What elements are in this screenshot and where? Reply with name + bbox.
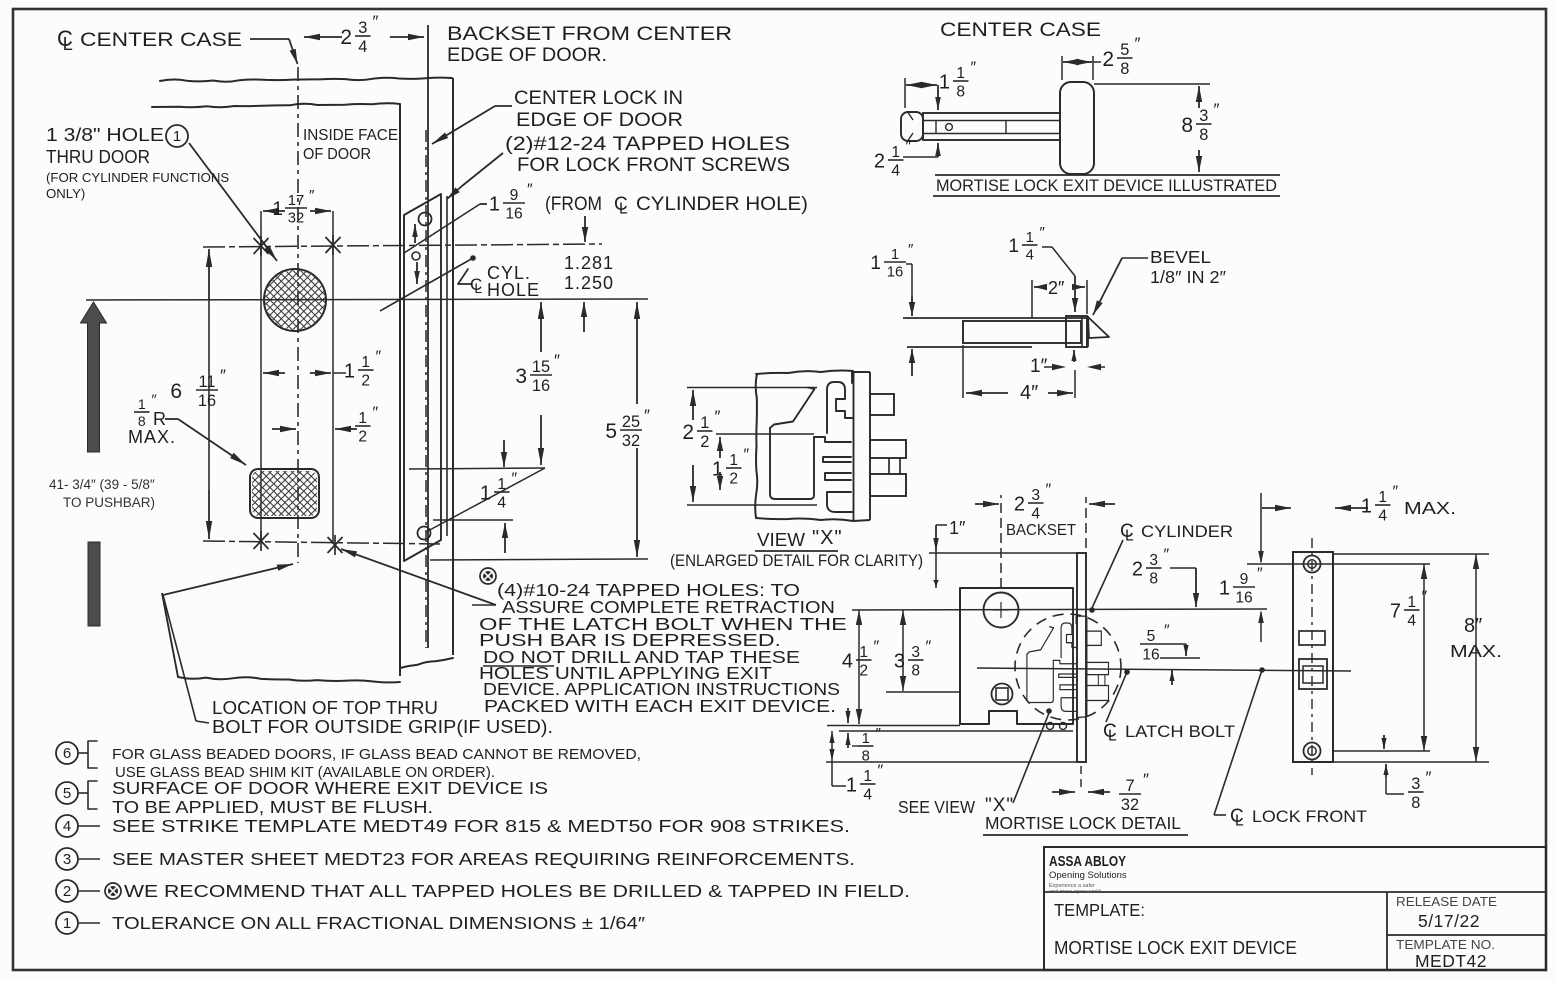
svg-text:″: ″ [971, 60, 977, 77]
dimension 7 1/4 [1421, 564, 1427, 579]
dimension 7/32 plate thickness [1080, 766, 1082, 790]
cylinder hole circle crosshatched [264, 269, 326, 331]
dimension 3 15/16 vertical [540, 302, 542, 352]
svg-text:2: 2 [729, 470, 738, 487]
svg-text:3: 3 [515, 365, 527, 388]
note 2 screw symbol [105, 883, 121, 899]
center case head [1060, 82, 1094, 174]
svg-text:MAX.: MAX. [128, 427, 176, 447]
svg-text:4: 4 [863, 786, 872, 803]
asterisk bottom left [260, 531, 262, 551]
door vertical centerline (dashed) [297, 67, 299, 563]
svg-text:HOLE: HOLE [487, 280, 540, 300]
bevel detail bottom face line [907, 346, 1032, 348]
svg-text:1: 1 [859, 644, 868, 661]
svg-text:1.250: 1.250 [564, 273, 614, 293]
small cylinder mark circle on plate [412, 252, 420, 260]
lock body feet circles [1047, 723, 1054, 730]
top screw concentric circles [1304, 556, 1321, 573]
svg-text:THRU DOOR: THRU DOOR [46, 146, 150, 167]
dimension 3/8 bottom right [1383, 735, 1385, 749]
svg-text:L: L [1235, 812, 1244, 829]
svg-text:″: ″ [1257, 566, 1263, 583]
door top break - lower wavy line [152, 103, 400, 107]
svg-text:2: 2 [1132, 559, 1143, 581]
dashed view X circle [1015, 614, 1121, 720]
svg-text:1: 1 [358, 410, 367, 427]
svg-text:″: ″ [512, 471, 518, 488]
svg-text:″: ″ [1135, 34, 1141, 53]
svg-text:2: 2 [340, 26, 352, 49]
svg-text:1: 1 [1378, 489, 1387, 506]
svg-text:8: 8 [1181, 114, 1193, 137]
bottom reference line y=560 [430, 559, 648, 560]
svg-text:CYLINDER HOLE): CYLINDER HOLE) [636, 194, 808, 215]
view X dimension 1 1/2 [716, 433, 814, 435]
svg-text:25: 25 [622, 413, 640, 431]
lock front plate inner edge line [446, 196, 448, 536]
svg-text:"X": "X" [812, 527, 843, 549]
leader from asterisk to 10-24 tapped holes note [341, 549, 496, 605]
dimension 1/2 [272, 428, 296, 430]
svg-text:1: 1 [1026, 230, 1034, 246]
svg-text:″: ″ [876, 725, 882, 742]
svg-text:4: 4 [358, 38, 367, 56]
svg-text:8: 8 [1199, 126, 1208, 144]
asterisk mark left on top line [260, 236, 262, 256]
svg-text:″: ″ [744, 447, 750, 464]
svg-text:8: 8 [862, 749, 870, 765]
svg-text:1: 1 [480, 483, 491, 505]
label CL LOCK FRONT with leader [1214, 670, 1262, 815]
svg-text:MORTISE LOCK EXIT DEVICE: MORTISE LOCK EXIT DEVICE [1054, 937, 1297, 958]
svg-text:″: ″ [1164, 623, 1170, 640]
svg-text:4: 4 [891, 162, 900, 179]
bottom screw concentric circles [1304, 743, 1321, 760]
svg-text:3: 3 [358, 19, 367, 37]
svg-text:15: 15 [532, 358, 550, 376]
pushbar thru-bolt hole crosshatched rounded rect [250, 469, 319, 518]
reference line y762 plate bottom extension [826, 761, 1077, 763]
svg-text:R: R [153, 409, 166, 429]
upper rect hole on plate [1299, 631, 1325, 645]
asterisk bottom right [334, 535, 336, 555]
svg-text:11: 11 [199, 373, 216, 391]
title block vertical divider [1386, 892, 1388, 970]
dimension arrows 1 9/16 vertical pair [584, 216, 586, 242]
plate top extension right [1333, 553, 1489, 555]
cylinder centerline horizontal reference [86, 299, 648, 300]
svg-text:1: 1 [272, 199, 283, 220]
svg-text:INSIDE FACE: INSIDE FACE [303, 127, 398, 144]
comb teeth [814, 437, 852, 512]
latch bolt rect hole on plate [1299, 659, 1327, 689]
svg-text:1: 1 [863, 768, 872, 785]
door top break - upper wavy line [160, 78, 452, 82]
label CL LATCH BOLT with leader [1106, 672, 1127, 722]
large textured reference arrow lower shaft [88, 542, 100, 626]
spindle hub circle with square [992, 684, 1013, 705]
svg-text:″: ″ [152, 392, 157, 408]
svg-text:1: 1 [712, 459, 723, 481]
svg-text:VIEW: VIEW [757, 530, 805, 550]
svg-text:8: 8 [1149, 570, 1158, 587]
dimension 2 inch [1031, 280, 1033, 318]
label CL CYL HOLE with leader dot [470, 255, 476, 261]
bottom screw centerline extension [1333, 750, 1430, 752]
svg-text:17: 17 [288, 193, 304, 209]
dimension 1 1/2 hole spacing [263, 372, 285, 374]
svg-text:SURFACE OF DOOR WHERE EXIT DEV: SURFACE OF DOOR WHERE EXIT DEVICE IS [112, 778, 548, 798]
svg-text:1: 1 [497, 476, 506, 493]
svg-text:7: 7 [1125, 777, 1134, 795]
svg-text:2: 2 [361, 372, 370, 389]
cylinder hole in body [984, 593, 1019, 628]
svg-text:L: L [474, 280, 482, 296]
svg-text:4: 4 [1378, 507, 1387, 524]
backset dimension 2 3/4 [1000, 495, 1002, 588]
svg-text:″: ″ [1422, 589, 1428, 606]
prong connector lines [888, 458, 890, 474]
svg-text:and more open world: and more open world [1049, 889, 1101, 895]
dimension 8 MAX [1473, 554, 1479, 569]
ground line under device [935, 174, 1280, 176]
svg-text:1: 1 [729, 452, 738, 469]
dimension 1 1/4 bottom left [829, 731, 834, 743]
note 5 circle and bracket [56, 782, 78, 804]
reference line y725 [827, 725, 960, 727]
svg-text:32: 32 [288, 211, 304, 227]
svg-text:ONLY): ONLY) [46, 186, 85, 201]
svg-text:MAX.: MAX. [1450, 641, 1502, 661]
svg-text:5: 5 [605, 420, 617, 443]
svg-text:16: 16 [887, 265, 903, 281]
backset reference line (edge of door lock centerline), vertical [427, 25, 429, 648]
svg-text:Opening Solutions: Opening Solutions [1049, 870, 1127, 881]
svg-text:″: ″ [1164, 547, 1170, 564]
dimension 6 11/16 vertical [208, 249, 210, 300]
title block logo divider [1044, 891, 1546, 893]
view X door block wavy outline [756, 370, 853, 374]
push bar end cap [901, 112, 923, 141]
svg-text:4: 4 [1031, 505, 1040, 522]
svg-text:ASSA ABLOY: ASSA ABLOY [1049, 853, 1126, 870]
svg-text:CENTER CASE: CENTER CASE [940, 19, 1101, 41]
svg-text:″: ″ [908, 241, 914, 258]
svg-text:4: 4 [1026, 248, 1034, 264]
svg-text:EDGE OF DOOR: EDGE OF DOOR [516, 110, 683, 131]
svg-text:4: 4 [842, 651, 853, 673]
note 1 circle [56, 912, 78, 934]
svg-text:1: 1 [1008, 236, 1019, 257]
bottom reference line with asterisks [203, 541, 440, 544]
svg-text:8: 8 [911, 662, 920, 679]
svg-text:16: 16 [1142, 646, 1159, 663]
svg-text:1: 1 [700, 414, 709, 432]
svg-text:1: 1 [939, 72, 950, 94]
svg-text:1: 1 [361, 354, 370, 371]
lock front plate elevation rect [1293, 552, 1333, 762]
bevel lock body rect [963, 321, 1081, 343]
note 4 circle [56, 815, 78, 837]
door edge bottom wavy between edge lines [400, 658, 453, 668]
svg-text:2: 2 [358, 428, 367, 445]
bevel lock front plate [1066, 316, 1087, 347]
svg-text:1/8″ IN 2″: 1/8″ IN 2″ [1150, 267, 1226, 287]
svg-text:41- 3/4″ (39 - 5/8″: 41- 3/4″ (39 - 5/8″ [49, 477, 155, 492]
svg-text:L: L [63, 34, 73, 54]
svg-text:7: 7 [1390, 601, 1401, 623]
title block right divider [1387, 934, 1546, 936]
svg-text:″: ″ [554, 351, 560, 370]
svg-text:LOCATION OF TOP THRU: LOCATION OF TOP THRU [212, 698, 438, 718]
svg-text:PACKED WITH EACH EXIT DEVICE.: PACKED WITH EACH EXIT DEVICE. [484, 696, 836, 716]
plate vertical centerline dashed [1311, 538, 1313, 775]
svg-text:1.281: 1.281 [564, 253, 614, 273]
svg-text:TEMPLATE NO.: TEMPLATE NO. [1396, 937, 1495, 952]
svg-text:L: L [1108, 727, 1117, 744]
note 2 circle [56, 880, 78, 902]
note 3 circle [56, 848, 78, 870]
svg-text:TOLERANCE ON ALL FRACTIONAL DI: TOLERANCE ON ALL FRACTIONAL DIMENSIONS ±… [112, 913, 645, 933]
comb lower pocket [770, 428, 814, 499]
svg-text:2″: 2″ [1048, 278, 1065, 298]
svg-text:1: 1 [173, 128, 181, 145]
push bar body [923, 113, 1060, 140]
svg-text:LOCK FRONT: LOCK FRONT [1252, 807, 1367, 826]
svg-text:1: 1 [63, 915, 71, 932]
dimension 8 3/8 [1094, 83, 1210, 85]
lock front plate on door edge - parallelogram [404, 194, 441, 561]
title block outer rect [1044, 847, 1546, 970]
reference line y=468 [409, 468, 545, 469]
door bottom break wavy line [178, 677, 400, 682]
leader to lock front plate top screw [462, 153, 503, 186]
latch bolt prong top [870, 394, 894, 415]
svg-text:8: 8 [1120, 60, 1129, 78]
svg-text:OF DOOR: OF DOOR [303, 146, 371, 163]
svg-text:″: ″ [220, 366, 226, 385]
svg-text:″: ″ [878, 763, 884, 780]
svg-text:2: 2 [63, 883, 71, 900]
hole center vertical line left [260, 211, 262, 541]
svg-text:″: ″ [1040, 224, 1046, 241]
plate bottom extension right [1333, 761, 1489, 763]
svg-text:EDGE OF DOOR.: EDGE OF DOOR. [447, 44, 607, 66]
svg-text:″: ″ [1393, 484, 1399, 501]
svg-text:″: ″ [644, 406, 650, 425]
note 6 circle and bracket [56, 742, 78, 764]
svg-text:2: 2 [682, 421, 694, 444]
svg-text:″: ″ [1046, 482, 1052, 499]
screw centerline y564 [1247, 563, 1430, 565]
svg-text:5: 5 [63, 785, 71, 802]
svg-text:4: 4 [497, 494, 506, 511]
svg-text:9: 9 [1240, 571, 1249, 588]
svg-text:″: ″ [1214, 100, 1220, 119]
leader polyline for LOCATION OF TOP THRU BOLT [163, 564, 293, 595]
dimension 2 5/8 [1061, 56, 1063, 80]
lock edge centerline dashed [425, 130, 427, 648]
leader from CENTER CASE label to door centerline [250, 38, 289, 40]
svg-text:″: ″ [376, 349, 382, 366]
svg-text:1: 1 [1219, 578, 1230, 600]
svg-text:2: 2 [859, 662, 868, 679]
hole center vertical line right [332, 211, 334, 544]
svg-text:16: 16 [1235, 589, 1252, 606]
dimension 4 1/2 left [856, 610, 862, 625]
svg-text:(FROM: (FROM [545, 194, 602, 215]
svg-text:3: 3 [1031, 487, 1040, 504]
asterisk mark right on top line [332, 235, 334, 255]
svg-text:3: 3 [1411, 775, 1420, 793]
lock front plate edge-on [853, 372, 855, 521]
svg-text:″: ″ [1426, 768, 1432, 787]
svg-text:″: ″ [373, 12, 379, 31]
dimension 1 1/4 small [503, 440, 505, 467]
svg-text:CENTER CASE: CENTER CASE [80, 30, 242, 51]
svg-text:1: 1 [489, 194, 500, 216]
svg-text:16: 16 [505, 205, 522, 222]
svg-text:8″: 8″ [1464, 615, 1482, 637]
dimension 1 1/8 [904, 78, 906, 108]
door bottom left slant edge [162, 593, 178, 677]
svg-text:(ENLARGED DETAIL FOR CLARITY): (ENLARGED DETAIL FOR CLARITY) [670, 552, 923, 570]
plate internal dimension arrows [414, 224, 416, 243]
svg-text:32: 32 [1121, 796, 1139, 814]
svg-text:4: 4 [63, 818, 71, 835]
push bar screw [946, 124, 953, 131]
bevel detail top face line [903, 317, 1088, 319]
svg-text:″: ″ [309, 187, 315, 204]
svg-text:1: 1 [344, 361, 355, 383]
svg-text:3: 3 [911, 644, 920, 661]
svg-text:″: ″ [373, 405, 379, 422]
lock front plate tall [1077, 553, 1086, 762]
svg-text:LATCH BOLT: LATCH BOLT [1125, 722, 1235, 741]
svg-text:FOR LOCK FRONT SCREWS: FOR LOCK FRONT SCREWS [517, 155, 790, 176]
svg-text:TEMPLATE:: TEMPLATE: [1054, 900, 1145, 920]
svg-text:MORTISE LOCK EXIT DEVICE ILLUS: MORTISE LOCK EXIT DEVICE ILLUSTRATED [936, 177, 1277, 195]
dimension 2 3/4 backset at top [304, 36, 342, 38]
svg-text:″: ″ [715, 407, 721, 426]
svg-text:9: 9 [510, 187, 519, 204]
svg-text:SEE STRIKE TEMPLATE MEDT49 F: SEE STRIKE TEMPLATE MEDT49 FOR 815 & MED… [112, 816, 850, 836]
svg-text:3: 3 [1199, 107, 1208, 125]
svg-text:″: ″ [906, 139, 912, 156]
top plate screw circle [419, 213, 432, 226]
svg-text:(2)#12-24 TAPPED HOLES: (2)#12-24 TAPPED HOLES [505, 134, 790, 155]
svg-text:1″: 1″ [949, 518, 966, 538]
svg-text:1: 1 [956, 65, 965, 82]
svg-text:CYLINDER: CYLINDER [1141, 523, 1233, 541]
svg-text:BOLT FOR OUTSIDE GRIP(IF USED): BOLT FOR OUTSIDE GRIP(IF USED). [212, 717, 553, 737]
bevel triangle [1088, 317, 1109, 338]
dimension 17/32 hole offset [263, 210, 285, 212]
svg-text:6: 6 [170, 380, 182, 403]
svg-text:16: 16 [198, 392, 216, 410]
dimension 4 inch [962, 345, 964, 398]
svg-text:″: ″ [926, 639, 932, 656]
cylinder centerline horizontal [852, 609, 1267, 610]
dimension 5 25/32 vertical [636, 302, 638, 404]
svg-text:SEE VIEW: SEE VIEW [898, 797, 975, 817]
mini comb profile (actual size) via reuse [1027, 616, 1109, 717]
svg-text:3: 3 [63, 851, 71, 868]
svg-text:2: 2 [1014, 494, 1025, 516]
svg-text:4″: 4″ [1020, 382, 1038, 404]
svg-text:L: L [1125, 527, 1134, 544]
svg-text:WE RECOMMEND THAT ALL TAPPED H: WE RECOMMEND THAT ALL TAPPED HOLES BE DR… [124, 881, 910, 901]
leader from note 1 to cylinder hole [189, 143, 277, 261]
bottom plate screw circle [418, 527, 431, 540]
svg-text:CENTER LOCK IN: CENTER LOCK IN [514, 88, 683, 109]
svg-text:1: 1 [1407, 594, 1416, 611]
svg-text:1: 1 [870, 253, 881, 274]
dimension 1/8 [847, 708, 849, 723]
svg-text:16: 16 [532, 377, 550, 395]
svg-text:BACKSET FROM CENTER: BACKSET FROM CENTER [447, 23, 732, 45]
latch bolt prong middle [870, 440, 906, 458]
svg-text:1: 1 [1361, 496, 1372, 518]
latch centerline horizontal [977, 668, 1351, 671]
svg-text:MORTISE LOCK DETAIL: MORTISE LOCK DETAIL [985, 813, 1181, 833]
svg-text:1: 1 [891, 247, 899, 263]
screw symbol for tapped holes note [480, 568, 496, 584]
svg-text:RELEASE DATE: RELEASE DATE [1396, 894, 1497, 909]
leader to bottom screw diagonal [426, 468, 545, 532]
reference line y692 [886, 691, 960, 693]
svg-text:BEVEL: BEVEL [1150, 247, 1211, 267]
plate top extension line [929, 552, 1077, 554]
svg-text:1: 1 [862, 731, 870, 747]
large textured reference arrow upper shaft with head [81, 302, 107, 452]
reference line y731 [839, 730, 1073, 732]
svg-text:″: ″ [1143, 770, 1149, 789]
svg-text:32: 32 [622, 432, 640, 450]
svg-text:6: 6 [63, 745, 71, 762]
door far edge vertical line [452, 78, 454, 655]
dimension 1 1/4 MAX top [1260, 493, 1262, 562]
svg-text:MAX.: MAX. [1404, 498, 1456, 518]
svg-text:4: 4 [1407, 612, 1416, 629]
svg-text:5: 5 [1147, 628, 1156, 645]
reference line y=520 [433, 519, 513, 521]
svg-text:5: 5 [1120, 41, 1129, 59]
svg-text:TO PUSHBAR): TO PUSHBAR) [63, 495, 155, 510]
comb lock body profile enlarged [770, 372, 906, 521]
svg-text:1: 1 [846, 775, 857, 797]
svg-text:3: 3 [894, 651, 905, 673]
door inside face right edge vertical line [399, 104, 401, 676]
latch bolt prong bottom [870, 474, 906, 496]
svg-text:″: ″ [874, 639, 880, 656]
svg-text:3: 3 [1149, 552, 1158, 569]
svg-text:8: 8 [1411, 794, 1420, 812]
svg-text:L: L [619, 200, 628, 217]
svg-text:BACKSET: BACKSET [1006, 522, 1077, 539]
mortise lock body outline [960, 588, 1073, 724]
svg-text:5/17/22: 5/17/22 [1418, 911, 1480, 931]
dimension 3 3/8 left [900, 610, 906, 625]
svg-text:(FOR CYLINDER FUNCTIONS: (FOR CYLINDER FUNCTIONS [46, 170, 229, 185]
svg-text:2: 2 [874, 151, 885, 173]
svg-text:2: 2 [700, 433, 709, 451]
comb profile top tab [827, 372, 852, 433]
svg-text:MEDT42: MEDT42 [1415, 951, 1487, 971]
view X dimension 2 1/2 [687, 387, 817, 389]
dimension 1 inch plate-body [936, 524, 947, 526]
